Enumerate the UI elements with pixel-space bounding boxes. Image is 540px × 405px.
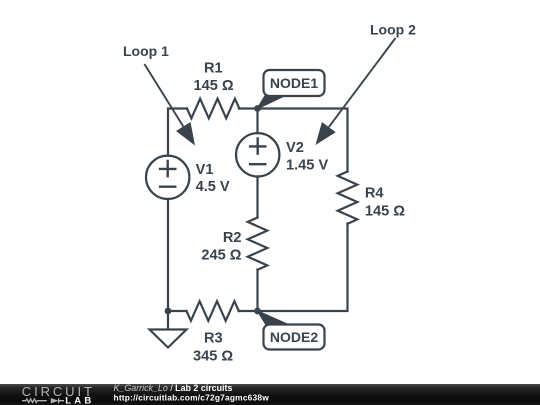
wire R4 to bottom-right corner to node2 <box>258 224 348 312</box>
node B junction dot NODE2 <box>254 308 261 315</box>
NODE2 flag pointer <box>258 311 289 325</box>
resistor R4 <box>338 172 358 224</box>
ground <box>150 311 187 348</box>
wire R3 to node2 <box>239 310 258 312</box>
voltage source V2 <box>236 133 279 176</box>
annotation Loop 1 arrowhead <box>176 122 195 146</box>
node A junction dot NODE1 <box>254 105 261 112</box>
resistor R3 <box>187 301 239 321</box>
svg-text:NODE1: NODE1 <box>270 75 318 91</box>
logo diode triangle <box>51 398 59 403</box>
NODE1 flag pointer <box>258 96 285 109</box>
resistor R1 <box>187 99 239 119</box>
svg-text:1.45 V: 1.45 V <box>286 158 328 174</box>
svg-text:NODE2: NODE2 <box>270 329 318 345</box>
V2 minus sign <box>250 163 265 165</box>
wire V1 to ground junction <box>167 199 169 311</box>
annotation Loop 2 arrowhead <box>316 122 336 145</box>
svg-text:V2: V2 <box>286 140 304 156</box>
svg-text:245 Ω: 245 Ω <box>201 248 241 264</box>
svg-text:145 Ω: 145 Ω <box>365 203 405 219</box>
svg-text:4.5 V: 4.5 V <box>196 179 230 195</box>
svg-text:R3: R3 <box>204 331 223 347</box>
V1 minus sign <box>160 185 175 187</box>
svg-text:K_Garrick_Lo / Lab 2 circuits: K_Garrick_Lo / Lab 2 circuits <box>114 383 233 393</box>
svg-text:Loop 1: Loop 1 <box>123 43 169 59</box>
svg-text:R1: R1 <box>204 61 223 77</box>
resistor R2 <box>248 218 268 270</box>
svg-text:Loop 2: Loop 2 <box>370 22 416 38</box>
svg-text:R2: R2 <box>223 230 242 246</box>
annotation Loop 1 arrow line <box>144 64 183 127</box>
wire top-left corner to R1 <box>168 109 187 156</box>
annotation Loop 2 arrow line <box>329 38 396 127</box>
wire node1 down to V2 <box>256 109 258 134</box>
svg-text:V1: V1 <box>196 162 214 178</box>
svg-text:R4: R4 <box>365 186 385 202</box>
logo circuit symbol: wire, resistor zigzag, diode <box>22 398 64 403</box>
NODE1 label box <box>264 70 325 96</box>
svg-text:345 Ω: 345 Ω <box>193 349 233 365</box>
V1 plus sign <box>160 161 175 176</box>
NODE2 label box <box>264 325 325 350</box>
svg-text:http://circuitlab.com/c72g7agm: http://circuitlab.com/c72g7agmc638w <box>114 392 270 402</box>
wire R2 to node2 <box>256 270 258 312</box>
svg-text:LAB: LAB <box>65 396 94 405</box>
wire V2 to R2 <box>256 177 258 218</box>
ground junction dot <box>165 308 172 315</box>
svg-text:145 Ω: 145 Ω <box>194 78 234 94</box>
wire R1 to node1 to top-right corner <box>239 109 348 172</box>
V2 plus sign <box>250 139 265 154</box>
voltage source V1 <box>146 156 189 199</box>
wire ground junction to R3 <box>168 310 187 312</box>
